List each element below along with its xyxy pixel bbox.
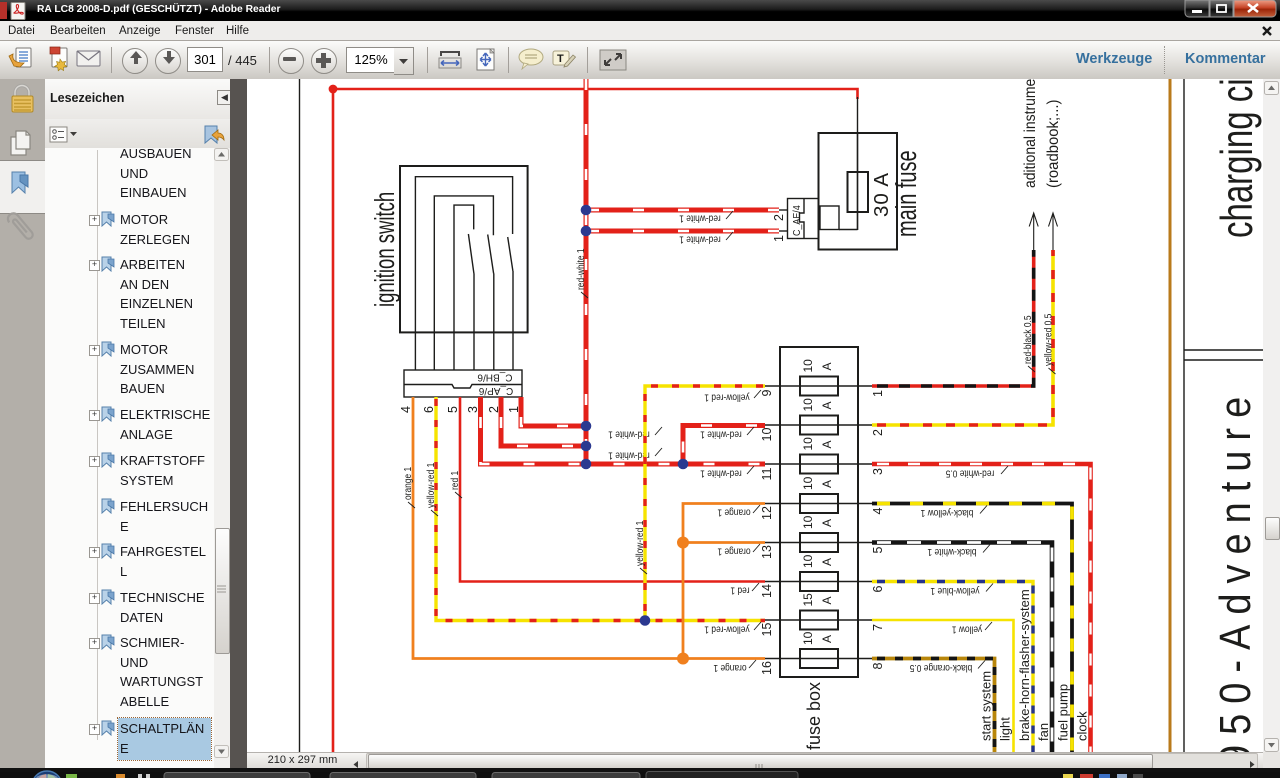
- bookmark export icon: [205, 126, 217, 143]
- wire brown page-edge vertical: [1169, 79, 1172, 752]
- svg-text:10: 10: [801, 631, 815, 645]
- node junction pin1 wire: [581, 421, 592, 432]
- svg-text:yellow-red 1: yellow-red 1: [634, 521, 646, 566]
- svg-text:10: 10: [801, 515, 815, 529]
- wire red-white ignition pin1: [521, 397, 586, 426]
- quick launch icons: [66, 774, 77, 778]
- svg-text:10: 10: [760, 428, 774, 442]
- connector C_BH/6 C_AP/6: [404, 370, 522, 397]
- wire red-black fuse pin1 to roadbook: [973, 656, 1135, 778]
- wire black-yellow fuse pin4 fuel pump: [973, 760, 1173, 778]
- svg-text:A: A: [820, 440, 834, 448]
- arrow off-page yellow-red: [1150, 469, 1159, 506]
- comment bubble icon: [519, 49, 543, 65]
- svg-text:light: light: [998, 717, 1013, 741]
- svg-text:6: 6: [422, 406, 436, 413]
- svg-text:red-white 1: red-white 1: [700, 467, 742, 479]
- fuse F2 10A row: [765, 424, 872, 426]
- main fuse box: [819, 133, 898, 250]
- wire yellow-red fuse pin2 to roadbook: [872, 250, 1053, 425]
- svg-text:10: 10: [801, 398, 815, 412]
- wire orange branch to fuse 13: [683, 541, 765, 544]
- wire red ignition pin5: [460, 397, 765, 582]
- ignition switch blade 1: [468, 234, 474, 370]
- wire red-black fuse pin1 to roadbook: [973, 702, 1135, 778]
- wire yellow-red fuse pin2 to roadbook: [973, 506, 1154, 681]
- node orange junction 16: [677, 653, 689, 665]
- svg-text:red 1: red 1: [730, 584, 749, 596]
- fuse F1 10A row: [866, 641, 973, 643]
- svg-text:orange 1: orange 1: [402, 467, 414, 500]
- svg-text:A: A: [820, 480, 834, 488]
- svg-text:red-white 0.5: red-white 0.5: [946, 467, 995, 479]
- svg-text:A: A: [820, 519, 834, 527]
- arrow off-page yellow-red: [1049, 213, 1058, 250]
- fuse F4 10A row: [765, 503, 872, 505]
- svg-text:A: A: [820, 362, 834, 370]
- arrow off-page yellow-red: [1150, 665, 1159, 702]
- svg-text:A: A: [820, 401, 834, 409]
- fuse F7 15A row: [765, 619, 872, 621]
- svg-text:main fuse: main fuse: [890, 150, 923, 237]
- wire red-white fuse pin10 link: [683, 426, 765, 465]
- nav arrows: [130, 51, 175, 64]
- wire red-white 0.5 fuse pin3 clock: [872, 464, 1091, 752]
- wire yellow-red ignition pin6: [436, 397, 765, 621]
- ignition switch contact loop 1: [415, 177, 512, 370]
- svg-text:black-yellow 1: black-yellow 1: [921, 507, 974, 519]
- svg-text:yellow 1: yellow 1: [952, 623, 982, 635]
- node orange junction 13: [677, 537, 689, 549]
- svg-text:13: 13: [760, 545, 774, 559]
- task buttons: [164, 773, 310, 778]
- arrow off-page red-black: [1130, 554, 1139, 591]
- svg-text:yellow-red 1: yellow-red 1: [704, 391, 749, 403]
- node junction main bottom: [581, 459, 592, 470]
- create pdf icon: [52, 48, 67, 67]
- wire red-black fuse pin1 to roadbook: [973, 591, 1135, 727]
- svg-text:A: A: [820, 635, 834, 643]
- wire red-black fuse pin1 to roadbook: [872, 250, 1034, 386]
- fit page icon: [477, 49, 494, 70]
- svg-text:1: 1: [772, 235, 786, 242]
- svg-text:1: 1: [871, 390, 885, 397]
- wire yellow-red fuse pin2 to roadbook: [973, 461, 1154, 636]
- svg-text:yellow-blue 1: yellow-blue 1: [931, 585, 980, 597]
- svg-text:T: T: [557, 53, 564, 65]
- fuse F3 10A row: [866, 719, 973, 721]
- node junction main/pin2: [581, 205, 592, 216]
- wire yellow-red fuse pin2 to roadbook: [973, 591, 1154, 766]
- svg-text:red-black 0.5: red-black 0.5: [1022, 315, 1034, 364]
- node junction yellow-red: [640, 615, 651, 626]
- fuse F2 10A row: [866, 680, 973, 682]
- splitter handle dots: [230, 425, 247, 465]
- wire yellow-red fuse pin2 to roadbook: [973, 702, 1154, 778]
- minus / plus: [283, 57, 296, 61]
- main fuse internal step: [820, 206, 839, 230]
- tree items: [120, 144, 214, 203]
- open icon: page with gold swoosh: [16, 48, 31, 67]
- svg-text:orange 1: orange 1: [717, 506, 750, 518]
- T pen icon: [553, 51, 569, 65]
- svg-text:fuel pump: fuel pump: [1056, 684, 1071, 741]
- arrow off-page red-black: [1130, 469, 1139, 506]
- fuse F6 10A row: [765, 581, 872, 583]
- wire red bus horizontal: [333, 89, 858, 99]
- ignition switch blade 2: [488, 235, 494, 371]
- svg-text:10: 10: [801, 437, 815, 451]
- svg-text:brake-horn-flasher-system: brake-horn-flasher-system: [1017, 589, 1032, 741]
- pin 1 lead: [779, 230, 788, 232]
- fuse F2 10A row: [866, 635, 973, 637]
- svg-text:yellow-red 1: yellow-red 1: [704, 623, 749, 635]
- svg-text:aditional instrume: aditional instrume: [1022, 79, 1039, 188]
- svg-text:C_BH/6: C_BH/6: [477, 372, 512, 383]
- arrow off-page red-black: [1130, 756, 1139, 778]
- wire red-white ignition pin3 to fuse 11: [481, 397, 766, 464]
- title block divider lower: [1184, 359, 1263, 361]
- fuse F1 10A row: [866, 596, 973, 598]
- menu bar: [0, 21, 1280, 41]
- wire yellow fuse pin7 light: [872, 620, 1014, 752]
- svg-text:A: A: [820, 558, 834, 566]
- svg-text:4: 4: [399, 406, 413, 413]
- svg-text:A: A: [820, 596, 834, 604]
- svg-text:red-white 1: red-white 1: [679, 233, 721, 245]
- svg-text:(roadbook;...): (roadbook;...): [1045, 100, 1063, 188]
- svg-text:4: 4: [871, 508, 885, 515]
- expand icon: [600, 50, 626, 70]
- ignition switch contact loop 2: [434, 196, 493, 370]
- svg-text:start system: start system: [979, 671, 994, 741]
- lock icon: [15, 86, 29, 98]
- fuse F4 10A row: [866, 759, 973, 761]
- svg-text:8: 8: [871, 663, 885, 670]
- svg-text:10: 10: [801, 476, 815, 490]
- fuse element 30A: [848, 172, 869, 212]
- svg-text:red-white 1: red-white 1: [700, 428, 742, 440]
- wire black-yellow fuse pin4 fuel pump: [973, 715, 1173, 778]
- svg-text:15: 15: [760, 623, 774, 637]
- svg-text:16: 16: [760, 661, 774, 675]
- svg-text:7: 7: [871, 624, 885, 631]
- fuse F2 10A row: [866, 765, 973, 767]
- arrow off-page yellow-red: [1150, 711, 1159, 748]
- svg-text:orange 1: orange 1: [713, 662, 746, 674]
- window bottom edge: [0, 768, 1280, 772]
- page: [230, 79, 1263, 768]
- svg-text:C_AP/6: C_AP/6: [478, 385, 513, 396]
- arrow off-page yellow-red: [1150, 619, 1159, 656]
- svg-text:red 1: red 1: [449, 471, 461, 490]
- arrow off-page red-black: [1130, 424, 1139, 461]
- arrow off-page yellow-red: [1150, 756, 1159, 778]
- svg-text:fuse box: fuse box: [804, 682, 824, 750]
- svg-text:10: 10: [801, 359, 815, 373]
- svg-text:red-white 1: red-white 1: [679, 212, 721, 224]
- wire red-white main vertical: [584, 79, 589, 464]
- wire orange branch to fuse 12: [683, 504, 765, 659]
- svg-text:yellow-red 0.5: yellow-red 0.5: [1043, 314, 1055, 366]
- bookmark icon active: [12, 172, 25, 193]
- svg-text:2: 2: [772, 214, 786, 221]
- wire red bus vertical: [332, 89, 335, 752]
- arrow off-page red-black: [1130, 711, 1139, 748]
- svg-text:orange 1: orange 1: [717, 545, 750, 557]
- start orb: [32, 771, 62, 778]
- wire yellow-red fuse pin2 to roadbook: [973, 748, 1154, 778]
- arrow off-page yellow-red: [1150, 424, 1159, 461]
- wire red-white branch to C_AE/4 pin1: [586, 229, 779, 234]
- adobe pdf doc icon: [0, 2, 7, 19]
- svg-text:clock: clock: [1075, 711, 1090, 741]
- svg-text:14: 14: [760, 584, 774, 598]
- svg-text:charging circuit: charging circuit: [1213, 79, 1262, 238]
- scrollbars: [1263, 79, 1280, 753]
- svg-text:fan: fan: [1036, 723, 1051, 741]
- envelope icon: [77, 51, 100, 66]
- pages icon: [11, 137, 26, 155]
- fuse F1 10A row: [866, 726, 973, 728]
- ignition switch contact loop 3: [454, 205, 474, 370]
- wire yellow-blue fuse pin6 brake-horn-flasher: [872, 582, 1033, 753]
- options icon: [50, 127, 67, 142]
- pin 2 lead: [779, 209, 788, 211]
- svg-text:5: 5: [871, 547, 885, 554]
- wire black main fuse vertical: [857, 133, 859, 230]
- taskbar: [0, 768, 1280, 778]
- svg-text:950-Adventure: 950-Adventure: [1211, 387, 1260, 766]
- wire red-white 0.5 fuse pin3 clock: [973, 720, 1192, 778]
- arrow off-page red-black: [1029, 213, 1038, 250]
- paperclip icon: [6, 211, 35, 242]
- svg-text:yellow-red 1: yellow-red 1: [425, 463, 437, 508]
- wire red-black fuse pin1 to roadbook: [973, 461, 1135, 597]
- svg-text:10: 10: [801, 554, 815, 568]
- fuse F3 10A row: [765, 463, 872, 465]
- svg-text:15: 15: [801, 593, 815, 607]
- wire black-white fuse pin5 fan: [973, 754, 1153, 778]
- wire black-yellow fuse pin4 fuel pump: [872, 504, 1072, 753]
- svg-text:3: 3: [466, 406, 480, 413]
- connector C_AE/4: [788, 199, 819, 239]
- wire red-white ignition pin2: [501, 397, 586, 446]
- arrow off-page yellow-red: [1150, 554, 1159, 591]
- sidebar: [0, 79, 46, 768]
- svg-text:5: 5: [446, 406, 460, 413]
- toolbar: [0, 41, 1280, 80]
- svg-text:11: 11: [760, 467, 774, 480]
- fit width icon: [440, 51, 460, 56]
- node junction main/pin1: [581, 226, 592, 237]
- fuse box: [780, 347, 858, 677]
- wire yellow-red fuse pin9: [645, 386, 765, 621]
- ignition switch blade 3: [508, 237, 513, 370]
- title block divider upper: [1184, 349, 1263, 351]
- frame border right: [1183, 79, 1185, 752]
- svg-text:red-white 1: red-white 1: [575, 248, 587, 290]
- fuse F5 10A row: [765, 542, 872, 544]
- wire black-white fuse pin5 fan: [872, 543, 1052, 753]
- svg-text:C_AE/4: C_AE/4: [791, 205, 803, 236]
- node red junction: [329, 85, 338, 94]
- node junction pin2 wire: [581, 441, 592, 452]
- svg-text:black-orange 0.5: black-orange 0.5: [910, 662, 973, 674]
- wire red-black fuse pin1 to roadbook: [973, 748, 1135, 778]
- svg-text:3: 3: [871, 468, 885, 475]
- wire black-orange fuse pin8 start system: [872, 659, 995, 753]
- svg-text:black-white 1: black-white 1: [928, 546, 977, 558]
- wire red-white 0.5 fuse pin3 clock: [973, 675, 1192, 778]
- fuse F8 10A row: [765, 658, 872, 660]
- svg-text:12: 12: [760, 506, 774, 520]
- node junction pin10 link: [678, 459, 689, 470]
- fuse F4 10A row: [866, 714, 973, 716]
- wire red-black fuse pin1 to roadbook: [973, 506, 1135, 642]
- svg-text:2: 2: [871, 429, 885, 436]
- wire black lead into main fuse: [857, 97, 859, 230]
- fuse F3 10A row: [866, 674, 973, 676]
- arrow off-page red-black: [1130, 619, 1139, 656]
- svg-text:ignition switch: ignition switch: [369, 192, 400, 307]
- wire orange ignition pin4: [413, 397, 765, 659]
- frame border left: [299, 79, 301, 752]
- title bar: [0, 0, 1280, 21]
- svg-text:9: 9: [760, 390, 774, 397]
- wire yellow-red fuse pin2 to roadbook: [973, 656, 1154, 778]
- ignition switch outer case: [400, 166, 528, 332]
- tray icons: [1063, 774, 1073, 778]
- fuse F5 10A row: [866, 753, 973, 755]
- fuse F1 10A row: [765, 385, 872, 387]
- svg-text:6: 6: [871, 586, 885, 593]
- wire red-white branch to C_AE/4 pin2: [586, 208, 779, 213]
- arrow off-page red-black: [1130, 665, 1139, 702]
